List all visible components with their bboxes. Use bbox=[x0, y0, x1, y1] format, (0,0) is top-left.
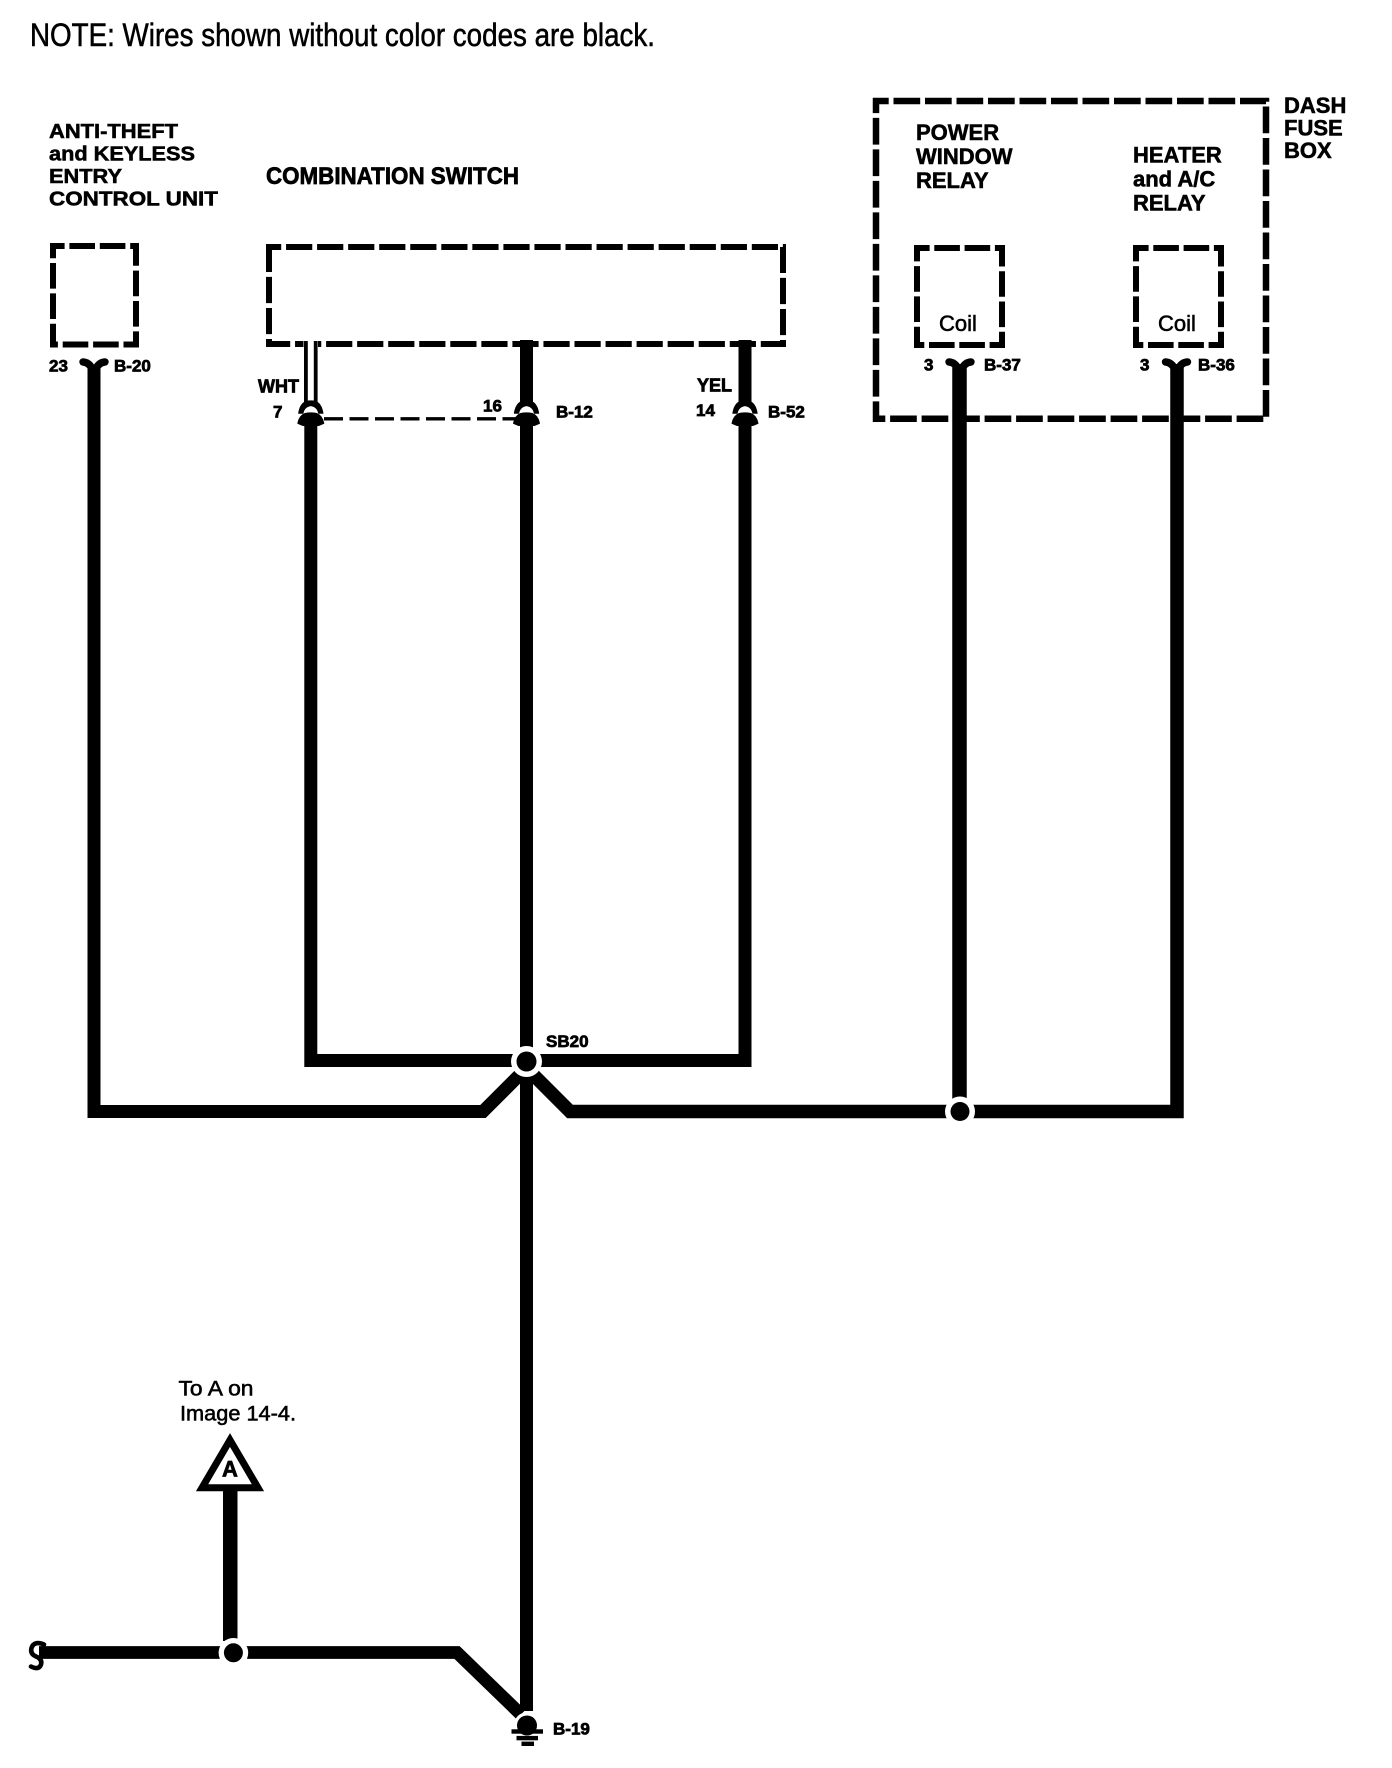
wire conn7 vertical then right along upper bus to SB20 bbox=[311, 418, 520, 1061]
svg-text:B-20: B-20 bbox=[114, 357, 151, 376]
svg-text:COMBINATION SWITCH: COMBINATION SWITCH bbox=[266, 163, 519, 190]
node SB20 white ring bbox=[511, 1046, 542, 1077]
svg-text:ENTRY: ENTRY bbox=[49, 165, 122, 188]
wire B-52 vertical then left along upper bus to SB20 bbox=[535, 418, 745, 1061]
svg-text:16: 16 bbox=[483, 397, 502, 416]
svg-text:B-37: B-37 bbox=[984, 356, 1021, 375]
wire stub from box to connector B-52 bbox=[739, 340, 752, 406]
box coil of heater a/c relay (dashed) bbox=[1136, 248, 1221, 345]
svg-text:B-36: B-36 bbox=[1198, 356, 1235, 375]
label POWER WINDOW RELAY bbox=[916, 120, 1013, 193]
svg-text:23: 23 bbox=[49, 357, 68, 376]
ground bar 2 bbox=[517, 1736, 539, 1740]
label ANTI-THEFT and KEYLESS ENTRY CONTROL UNIT bbox=[49, 120, 219, 211]
off-page triangle A bbox=[202, 1440, 258, 1488]
svg-text:DASH: DASH bbox=[1284, 93, 1346, 118]
svg-text:Image 14-4.: Image 14-4. bbox=[180, 1403, 296, 1426]
label DASH FUSE BOX bbox=[1284, 93, 1346, 163]
svg-text:BOX: BOX bbox=[1284, 138, 1332, 163]
svg-text:POWER: POWER bbox=[916, 120, 999, 145]
wire B-20 vertical then right along lower bus bbox=[94, 365, 523, 1112]
svg-text:B-52: B-52 bbox=[768, 403, 805, 422]
box anti-theft control unit (dashed) bbox=[53, 246, 136, 345]
wire power window relay vertical bbox=[952, 364, 967, 1104]
svg-text:7: 7 bbox=[273, 403, 282, 422]
connector B-36 (Y arrow) bbox=[1166, 362, 1188, 369]
ground B-19 ball bbox=[517, 1716, 537, 1736]
label HEATER and A/C RELAY bbox=[1133, 143, 1222, 216]
svg-text:FUSE: FUSE bbox=[1284, 116, 1343, 141]
svg-text:Coil: Coil bbox=[939, 311, 977, 336]
svg-text:3: 3 bbox=[924, 356, 933, 375]
connector pin 14 / B-52 (female arc + male dome) bbox=[732, 400, 759, 426]
svg-text:B-12: B-12 bbox=[556, 403, 593, 422]
connector B-20 (Y arrow) bbox=[83, 362, 105, 369]
svg-text:HEATER: HEATER bbox=[1133, 143, 1222, 168]
wire heater relay vertical then left along lower bus bbox=[531, 364, 1178, 1112]
svg-text:Coil: Coil bbox=[1158, 311, 1196, 336]
node junction dot at triangle stem white ring bbox=[219, 1638, 249, 1668]
wire stem from triangle A down to bottom bus bbox=[223, 1489, 238, 1641]
box dash fuse box (dashed) bbox=[876, 101, 1266, 419]
box combination switch (dashed) bbox=[269, 247, 783, 344]
connector pin 7 (female arc + male dome) bbox=[297, 400, 324, 426]
svg-text:ANTI-THEFT: ANTI-THEFT bbox=[49, 120, 179, 143]
svg-text:and KEYLESS: and KEYLESS bbox=[49, 143, 195, 166]
svg-text:3: 3 bbox=[1140, 356, 1149, 375]
svg-text:B-19: B-19 bbox=[553, 1720, 590, 1739]
svg-text:NOTE: Wires shown without colo: NOTE: Wires shown without color codes ar… bbox=[30, 17, 655, 53]
connector pin 16 / B-12 (female arc + male dome) bbox=[513, 400, 540, 426]
svg-text:YEL: YEL bbox=[697, 376, 732, 396]
svg-text:CONTROL UNIT: CONTROL UNIT bbox=[49, 188, 219, 211]
ground bar 3 bbox=[522, 1742, 535, 1746]
wire white WHT double-line from combination switch bbox=[304, 339, 319, 404]
node SB20 dot bbox=[517, 1052, 537, 1072]
svg-text:A: A bbox=[222, 1457, 238, 1482]
svg-text:WINDOW: WINDOW bbox=[916, 144, 1013, 169]
node power window relay junction dot bbox=[951, 1102, 970, 1121]
node junction dot at triangle stem bbox=[224, 1643, 243, 1662]
wire stub from box to connector B-12 bbox=[520, 340, 533, 406]
svg-text:To A on: To A on bbox=[179, 1378, 254, 1401]
connector B-37 (Y arrow) bbox=[949, 362, 971, 369]
wire bottom bus with S continuation end and diagonal to ground bbox=[39, 1653, 521, 1715]
S-curve continuation mark at left end of bottom bus bbox=[31, 1643, 44, 1668]
dashed link line between pin 7 and pin 16 bbox=[324, 417, 517, 420]
svg-text:WHT: WHT bbox=[258, 377, 299, 397]
svg-text:SB20: SB20 bbox=[546, 1032, 589, 1051]
svg-text:RELAY: RELAY bbox=[916, 168, 989, 193]
node power window relay junction white ring bbox=[945, 1097, 975, 1127]
ground B-19 white gap bbox=[514, 1712, 540, 1738]
box coil of power window relay (dashed) bbox=[917, 248, 1002, 345]
wire B-12 main vertical down to ground bbox=[520, 419, 533, 1711]
ground bar 1 bbox=[512, 1729, 544, 1733]
svg-text:RELAY: RELAY bbox=[1133, 191, 1206, 216]
svg-text:and A/C: and A/C bbox=[1133, 167, 1215, 192]
svg-text:14: 14 bbox=[696, 401, 715, 420]
